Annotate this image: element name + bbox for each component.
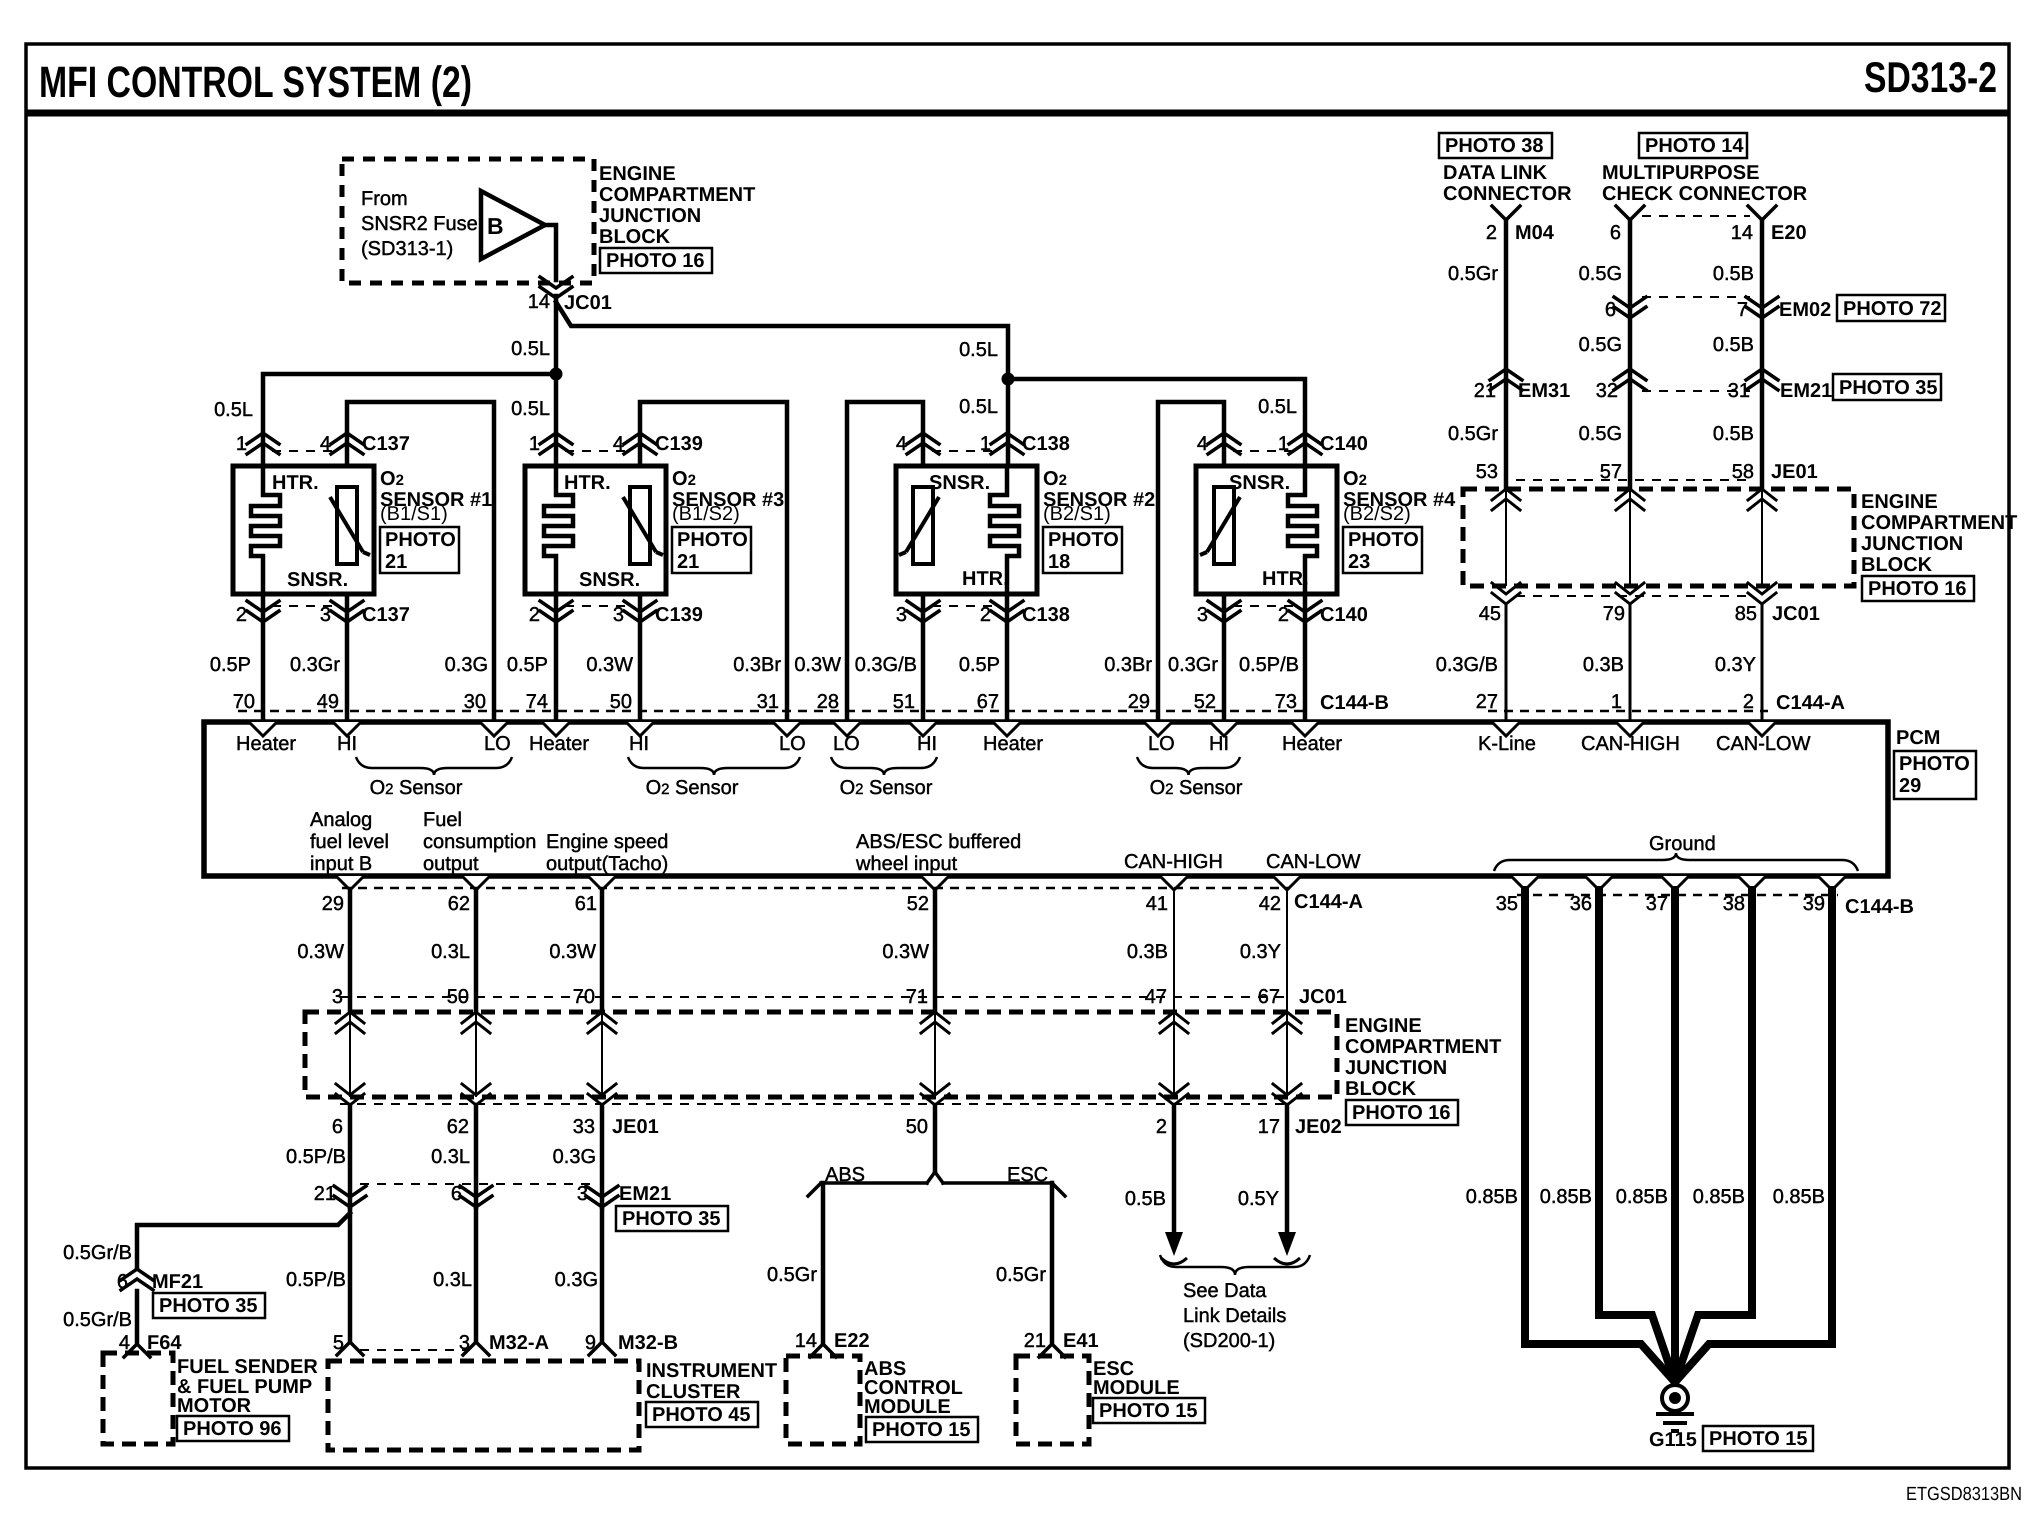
PCM top pin V connector at x=1762 bbox=[1748, 722, 1776, 736]
svg-text:0.3B: 0.3B bbox=[1127, 941, 1168, 963]
svg-text:JUNCTION: JUNCTION bbox=[1345, 1057, 1447, 1079]
connector C137 pin 1 chevron bbox=[247, 433, 279, 454]
PCM bottom pin V connector at x=1599 bbox=[1585, 876, 1613, 890]
O2 sensor 1 box bbox=[233, 466, 374, 594]
wire 0.5L bus down to sensor2 pin1 bbox=[1006, 379, 1011, 466]
svg-text:E20: E20 bbox=[1771, 222, 1807, 244]
svg-text:C138: C138 bbox=[1022, 433, 1070, 455]
svg-text:(B2/S2): (B2/S2) bbox=[1343, 503, 1411, 525]
svg-text:4: 4 bbox=[1197, 433, 1208, 455]
svg-text:0.5Gr: 0.5Gr bbox=[1448, 263, 1498, 285]
brace grouping HI/LO pins bbox=[356, 757, 512, 775]
svg-text:23: 23 bbox=[1348, 551, 1370, 573]
arrow tick bbox=[1161, 1258, 1187, 1264]
svg-text:2: 2 bbox=[1486, 222, 1497, 244]
svg-text:3: 3 bbox=[459, 1332, 470, 1354]
svg-text:21: 21 bbox=[385, 551, 407, 573]
svg-text:CLUSTER: CLUSTER bbox=[646, 1381, 741, 1403]
svg-text:0.5P: 0.5P bbox=[210, 654, 251, 676]
wire sensor 4 SNSR bottom to PCM bbox=[1222, 594, 1227, 722]
svg-text:PHOTO 16: PHOTO 16 bbox=[1352, 1102, 1451, 1124]
sensing element SNSR of sensor 1 bbox=[337, 487, 357, 564]
svg-text:0.85B: 0.85B bbox=[1466, 1186, 1518, 1208]
svg-text:C137: C137 bbox=[362, 604, 410, 626]
svg-text:45: 45 bbox=[1479, 603, 1501, 625]
connector M32-B pin 9 fork bbox=[589, 1342, 615, 1355]
O2 sensor 3 box bbox=[525, 466, 666, 594]
svg-text:0.5P/B: 0.5P/B bbox=[286, 1269, 346, 1291]
svg-text:(SD200-1): (SD200-1) bbox=[1183, 1330, 1275, 1352]
FUEL SENDER dashed box bbox=[103, 1353, 173, 1444]
svg-text:3: 3 bbox=[613, 604, 624, 626]
svg-text:27: 27 bbox=[1476, 691, 1498, 713]
svg-text:6: 6 bbox=[451, 1183, 462, 1205]
svg-text:17: 17 bbox=[1258, 1116, 1280, 1138]
svg-text:G115: G115 bbox=[1649, 1429, 1697, 1451]
wire ESC branch down to E41 bbox=[1050, 1183, 1055, 1344]
svg-text:PCM: PCM bbox=[1896, 727, 1940, 749]
svg-text:2: 2 bbox=[980, 604, 991, 626]
junction block top chevron pin 71 bbox=[921, 1012, 949, 1033]
wire through junction block (pin 47) bbox=[1173, 1012, 1175, 1097]
svg-text:O2: O2 bbox=[1043, 468, 1067, 490]
svg-text:0.3W: 0.3W bbox=[586, 654, 633, 676]
svg-text:SNSR.: SNSR. bbox=[929, 472, 990, 494]
connector C140 pin 3 chevron bbox=[1208, 601, 1240, 622]
svg-text:COMPARTMENT: COMPARTMENT bbox=[599, 184, 755, 206]
connector C137 pin 3 chevron bbox=[331, 601, 363, 622]
note See Data Link Details (SD200-1) bbox=[1183, 1280, 1286, 1352]
svg-text:K-Line: K-Line bbox=[1478, 733, 1536, 755]
svg-text:14: 14 bbox=[795, 1330, 817, 1352]
svg-text:PHOTO: PHOTO bbox=[1048, 529, 1119, 551]
brace grouping ground pins bbox=[1494, 853, 1858, 871]
ESC MODULE dashed box bbox=[1016, 1356, 1089, 1444]
svg-text:0.5B: 0.5B bbox=[1713, 263, 1754, 285]
PCM bottom pin V connector at x=602 bbox=[588, 876, 616, 890]
svg-text:FUEL SENDER: FUEL SENDER bbox=[177, 1356, 318, 1378]
ABS CONTROL MODULE label bbox=[864, 1358, 963, 1418]
wire sensor 3 heater bottom to PCM bbox=[554, 594, 559, 722]
arrowhead CAN-LOW bbox=[1278, 1232, 1296, 1256]
svg-text:0.3B: 0.3B bbox=[1583, 654, 1624, 676]
connector C139 top dashed line bbox=[565, 450, 631, 452]
svg-text:31: 31 bbox=[757, 691, 779, 713]
ABS/ESC split bar bbox=[808, 1172, 1065, 1196]
svg-text:O2: O2 bbox=[1343, 468, 1367, 490]
svg-text:0.5G: 0.5G bbox=[1579, 423, 1622, 445]
svg-text:53: 53 bbox=[1476, 461, 1498, 483]
svg-text:PHOTO 16: PHOTO 16 bbox=[1868, 578, 1967, 600]
MULTIPURPOSE CHECK CONNECTOR label bbox=[1602, 162, 1808, 205]
svg-text:4: 4 bbox=[320, 433, 331, 455]
connector C139 pin 4 chevron bbox=[624, 433, 656, 454]
svg-text:CHECK CONNECTOR: CHECK CONNECTOR bbox=[1602, 183, 1808, 205]
svg-text:MFI CONTROL SYSTEM (2): MFI CONTROL SYSTEM (2) bbox=[39, 58, 472, 107]
wire PCM pin 41 down to junction block bbox=[1173, 890, 1175, 1012]
svg-text:0.5Gr/B: 0.5Gr/B bbox=[63, 1309, 132, 1331]
svg-text:HTR.: HTR. bbox=[564, 472, 611, 494]
component label O2 SENSOR #3 bbox=[672, 468, 784, 525]
svg-text:0.3Y: 0.3Y bbox=[1240, 941, 1281, 963]
wire PCM pin 42 down to junction block bbox=[1286, 890, 1288, 1012]
svg-text:O2: O2 bbox=[380, 468, 404, 490]
svg-text:O2 Sensor: O2 Sensor bbox=[1150, 777, 1243, 799]
svg-text:38: 38 bbox=[1723, 893, 1745, 915]
PHOTO 15 label (ESC module) bbox=[1093, 1398, 1205, 1423]
svg-text:14: 14 bbox=[528, 291, 550, 313]
wire O2 sensor 2 signal LO loop bbox=[847, 402, 923, 722]
svg-text:JUNCTION: JUNCTION bbox=[1861, 533, 1963, 555]
svg-text:0.3G/B: 0.3G/B bbox=[855, 654, 917, 676]
junction block top chevron pin 50 bbox=[462, 1012, 490, 1033]
PCM top pin V connector at x=556 bbox=[542, 722, 570, 736]
svg-text:PHOTO 14: PHOTO 14 bbox=[1645, 135, 1744, 157]
svg-text:3: 3 bbox=[577, 1183, 588, 1205]
check connector terminal fork pin 6 bbox=[1616, 206, 1644, 220]
svg-text:PHOTO 15: PHOTO 15 bbox=[1099, 1400, 1198, 1422]
svg-text:0.85B: 0.85B bbox=[1693, 1186, 1745, 1208]
svg-text:JC01: JC01 bbox=[564, 292, 612, 314]
check connector dashed line bbox=[1642, 215, 1750, 217]
PCM top pin V connector at x=1158 bbox=[1144, 722, 1172, 736]
svg-text:HTR.: HTR. bbox=[962, 568, 1009, 590]
PCM bottom pin V connector at x=1752 bbox=[1738, 876, 1766, 890]
svg-text:COMPARTMENT: COMPARTMENT bbox=[1345, 1036, 1501, 1058]
svg-text:ETGSD8313BN: ETGSD8313BN bbox=[1906, 1484, 2022, 1505]
wire JC01 to PCM x=1630 bbox=[1629, 604, 1632, 722]
svg-text:M04: M04 bbox=[1515, 222, 1555, 244]
svg-text:MODULE: MODULE bbox=[864, 1396, 951, 1418]
svg-text:ABS/ESC buffered: ABS/ESC buffered bbox=[856, 831, 1021, 853]
connector E41 pin 21 fork bbox=[1039, 1344, 1065, 1357]
PHOTO 35 label (MF21) bbox=[153, 1293, 265, 1318]
PHOTO 14 label (check connector) bbox=[1639, 133, 1747, 158]
svg-text:BLOCK: BLOCK bbox=[1861, 554, 1933, 576]
svg-text:wheel input: wheel input bbox=[855, 853, 958, 875]
svg-text:0.5Gr: 0.5Gr bbox=[1448, 423, 1498, 445]
svg-text:HI: HI bbox=[917, 733, 937, 755]
svg-text:INSTRUMENT: INSTRUMENT bbox=[646, 1360, 777, 1382]
wire branch to fuel sender (MF21) bbox=[137, 1213, 350, 1269]
svg-text:50: 50 bbox=[906, 1116, 928, 1138]
ground wire pin 37 bbox=[1671, 890, 1679, 1378]
ground wire pin 39 bbox=[1677, 890, 1832, 1380]
svg-text:CAN-LOW: CAN-LOW bbox=[1716, 733, 1811, 755]
wire sensor 1 heater bottom to PCM bbox=[261, 594, 266, 722]
PHOTO 16 label (top junction block) bbox=[600, 248, 712, 273]
PHOTO 45 label (instrument cluster) bbox=[646, 1402, 758, 1427]
PCM bottom pin V connector at x=1525 bbox=[1511, 876, 1539, 890]
svg-text:C144-A: C144-A bbox=[1776, 692, 1845, 714]
JC01 connector dashed line (right) bbox=[1516, 595, 1752, 597]
svg-text:1: 1 bbox=[529, 433, 540, 455]
connector C144-B dashed line (ground row) bbox=[1517, 894, 1838, 897]
svg-text:PHOTO 35: PHOTO 35 bbox=[1839, 377, 1938, 399]
connector MF21 pin 6 chevron bbox=[121, 1269, 153, 1290]
connector C139 pin 2 chevron bbox=[540, 601, 572, 622]
connector C140 pin 4 chevron bbox=[1208, 433, 1240, 454]
wire junction block to EM21 connector x=476 bbox=[474, 1105, 479, 1207]
svg-text:HI: HI bbox=[1209, 733, 1229, 755]
svg-text:SNSR.: SNSR. bbox=[1229, 472, 1290, 494]
PHOTO 15 label (ABS module) bbox=[866, 1417, 978, 1442]
svg-text:6: 6 bbox=[1605, 299, 1616, 321]
svg-text:C144-B: C144-B bbox=[1320, 692, 1389, 714]
svg-text:Engine speed: Engine speed bbox=[546, 831, 668, 853]
svg-text:0.5P/B: 0.5P/B bbox=[286, 1146, 346, 1168]
svg-text:Heater: Heater bbox=[529, 733, 589, 755]
wire PCM pin 52 down to junction block bbox=[933, 890, 938, 1012]
svg-text:C137: C137 bbox=[362, 433, 410, 455]
ground wire pin 35 bbox=[1525, 890, 1673, 1380]
svg-text:0.5P: 0.5P bbox=[959, 654, 1000, 676]
wire sensor 1 SNSR bottom to PCM bbox=[345, 594, 350, 722]
svg-text:5: 5 bbox=[333, 1332, 344, 1354]
PCM top pin V connector at x=1224 bbox=[1210, 722, 1238, 736]
svg-text:C144-A: C144-A bbox=[1294, 891, 1363, 913]
svg-text:0.85B: 0.85B bbox=[1773, 1186, 1825, 1208]
svg-text:74: 74 bbox=[526, 691, 548, 713]
ABS CONTROL MODULE dashed box bbox=[786, 1356, 860, 1444]
junction block chevrons x=1762 bbox=[1748, 489, 1776, 510]
svg-text:0.3G: 0.3G bbox=[555, 1269, 598, 1291]
heater element HTR of sensor 2 bbox=[990, 464, 1019, 596]
junction node right (dot) bbox=[1002, 373, 1015, 386]
wire PCM pin 62 down to junction block bbox=[474, 890, 479, 1012]
svg-text:PHOTO 72: PHOTO 72 bbox=[1843, 298, 1942, 320]
svg-text:PHOTO: PHOTO bbox=[677, 529, 748, 551]
svg-text:PHOTO 35: PHOTO 35 bbox=[622, 1208, 721, 1230]
svg-text:Heater: Heater bbox=[236, 733, 296, 755]
svg-text:LO: LO bbox=[484, 733, 511, 755]
buffer/triangle B symbol bbox=[481, 191, 545, 259]
svg-text:61: 61 bbox=[575, 893, 597, 915]
junction block top chevron pin 70 bbox=[588, 1012, 616, 1033]
wire JC01 down to left 0.5L bus bbox=[554, 296, 559, 374]
svg-text:ENGINE: ENGINE bbox=[1345, 1015, 1422, 1037]
connector EM21 pin 3 chevron bbox=[586, 1186, 618, 1207]
connector C138 pin 2 chevron bbox=[991, 601, 1023, 622]
wire O2 sensor 1 signal LO loop bbox=[347, 402, 494, 722]
PCM top pin V connector at x=1305 bbox=[1291, 722, 1319, 736]
svg-text:3: 3 bbox=[320, 604, 331, 626]
wire fuel level signal down to M32-A pin 5 bbox=[348, 1207, 353, 1342]
PCM bottom pin V connector at x=1287 bbox=[1273, 876, 1301, 890]
ESC MODULE label bbox=[1093, 1358, 1180, 1399]
brace see data link bbox=[1160, 1255, 1310, 1275]
junction block bottom chevron pin 50 bbox=[921, 1084, 949, 1105]
svg-text:SNSR.: SNSR. bbox=[287, 569, 348, 591]
connector C138 bottom dashed line bbox=[932, 605, 998, 607]
svg-text:0.3G/B: 0.3G/B bbox=[1436, 654, 1498, 676]
svg-text:B: B bbox=[487, 213, 504, 239]
INSTRUMENT CLUSTER dashed box bbox=[328, 1361, 639, 1450]
connector C138 pin 3 chevron bbox=[907, 601, 939, 622]
ENGINE COMPARTMENT JUNCTION BLOCK label (right) bbox=[1861, 491, 2017, 576]
svg-text:output(Tacho): output(Tacho) bbox=[546, 853, 668, 875]
svg-text:CAN-LOW: CAN-LOW bbox=[1266, 851, 1361, 873]
svg-text:37: 37 bbox=[1646, 893, 1668, 915]
connector F64 pin 4 fork bbox=[124, 1344, 150, 1357]
svg-text:Ground: Ground bbox=[1649, 833, 1716, 855]
wire engine speed down to M32-B pin 9 bbox=[600, 1207, 605, 1342]
connector C139 bottom dashed line bbox=[565, 605, 631, 607]
PCM top pin V connector at x=347 bbox=[333, 722, 361, 736]
PHOTO 38 label (data link connector) bbox=[1439, 133, 1552, 158]
connector EM02 dashed line bbox=[1642, 296, 1750, 298]
wire M04 K-line down bbox=[1504, 220, 1509, 489]
connector EM31 pin 21 chevron bbox=[1490, 369, 1522, 390]
svg-text:0.5L: 0.5L bbox=[959, 339, 998, 361]
svg-text:BLOCK: BLOCK bbox=[1345, 1078, 1417, 1100]
connector C144-A dashed line (top) bbox=[1488, 710, 1768, 713]
svg-text:M32-A: M32-A bbox=[489, 1332, 549, 1354]
svg-text:fuel level: fuel level bbox=[310, 831, 389, 853]
INSTRUMENT CLUSTER label bbox=[646, 1360, 777, 1403]
svg-text:2: 2 bbox=[236, 604, 247, 626]
connector C138 pin 4 chevron bbox=[907, 433, 939, 454]
svg-text:CONNECTOR: CONNECTOR bbox=[1443, 183, 1572, 205]
connector C144-B dashed line (top) bbox=[238, 710, 1310, 713]
connector C140 pin 2 chevron bbox=[1289, 601, 1321, 622]
connector C140 top dashed line bbox=[1233, 450, 1296, 452]
svg-text:E41: E41 bbox=[1063, 1330, 1099, 1352]
wire PCM pin 61 down to junction block bbox=[600, 890, 605, 1012]
component label O2 SENSOR #2 bbox=[1043, 468, 1155, 525]
connector EM21 dashed line bbox=[1642, 390, 1750, 392]
svg-text:(B2/S1): (B2/S1) bbox=[1043, 503, 1111, 525]
sensing element SNSR of sensor 2 bbox=[913, 487, 933, 564]
wire junction block to EM21 connector x=602 bbox=[600, 1105, 605, 1207]
svg-text:LO: LO bbox=[833, 733, 860, 755]
svg-text:49: 49 bbox=[317, 691, 339, 713]
svg-text:50: 50 bbox=[610, 691, 632, 713]
svg-text:O2: O2 bbox=[672, 468, 696, 490]
svg-text:2: 2 bbox=[529, 604, 540, 626]
PCM bottom pin V connector at x=1174 bbox=[1160, 876, 1188, 890]
svg-text:0.5L: 0.5L bbox=[511, 398, 550, 420]
svg-text:LO: LO bbox=[1148, 733, 1175, 755]
sensing element SNSR of sensor 4 bbox=[1214, 487, 1234, 564]
component label O2 SENSOR #4 bbox=[1343, 468, 1456, 525]
heater element HTR of sensor 3 bbox=[544, 464, 573, 596]
FUEL SENDER & FUEL PUMP MOTOR label bbox=[177, 1356, 318, 1417]
svg-text:Fuel: Fuel bbox=[423, 809, 462, 831]
svg-text:EM31: EM31 bbox=[1518, 380, 1570, 402]
svg-text:CAN-HIGH: CAN-HIGH bbox=[1581, 733, 1680, 755]
svg-text:PHOTO 38: PHOTO 38 bbox=[1445, 135, 1544, 157]
svg-text:PHOTO: PHOTO bbox=[1899, 753, 1970, 775]
connector EM21 pin 32 chevron bbox=[1614, 369, 1646, 390]
svg-text:1: 1 bbox=[1278, 433, 1289, 455]
heater element HTR of sensor 1 bbox=[251, 464, 280, 596]
svg-text:2: 2 bbox=[1743, 691, 1754, 713]
svg-text:JE02: JE02 bbox=[1295, 1116, 1342, 1138]
connector C137 pin 2 chevron bbox=[247, 601, 279, 622]
svg-text:0.5B: 0.5B bbox=[1125, 1188, 1166, 1210]
svg-text:EM21: EM21 bbox=[619, 1183, 671, 1205]
svg-text:0.3W: 0.3W bbox=[549, 941, 596, 963]
connector C138 top dashed line bbox=[932, 450, 998, 452]
PCM box bbox=[204, 722, 1888, 876]
svg-text:C139: C139 bbox=[655, 433, 703, 455]
svg-text:85: 85 bbox=[1735, 603, 1757, 625]
arrow tick bbox=[1274, 1258, 1300, 1264]
junction block bottom chevron pin 33 bbox=[588, 1084, 616, 1105]
junction block chevrons x=1506 bbox=[1492, 489, 1520, 510]
svg-text:0.85B: 0.85B bbox=[1540, 1186, 1592, 1208]
svg-text:29: 29 bbox=[1899, 775, 1921, 797]
svg-text:See Data: See Data bbox=[1183, 1280, 1267, 1302]
connector M32-A pin 5 fork bbox=[337, 1342, 363, 1355]
svg-text:30: 30 bbox=[464, 691, 486, 713]
M32-A connector dashed line bbox=[360, 1349, 468, 1351]
connector C144-A dashed line (bottom) bbox=[342, 887, 1290, 890]
svg-text:O2 Sensor: O2 Sensor bbox=[370, 777, 463, 799]
svg-text:PHOTO: PHOTO bbox=[1348, 529, 1419, 551]
svg-text:output: output bbox=[423, 853, 479, 875]
PCM bottom pin V connector at x=476 bbox=[462, 876, 490, 890]
PHOTO 96 label (fuel sender) bbox=[177, 1416, 289, 1441]
svg-text:9: 9 bbox=[585, 1332, 596, 1354]
svg-text:O2 Sensor: O2 Sensor bbox=[646, 777, 739, 799]
JE01 connector dashed line (right) bbox=[1516, 479, 1752, 481]
svg-text:PHOTO 15: PHOTO 15 bbox=[872, 1419, 971, 1441]
svg-text:62: 62 bbox=[448, 893, 470, 915]
svg-text:DATA LINK: DATA LINK bbox=[1443, 162, 1548, 184]
wire ABS branch down to E22 bbox=[821, 1183, 826, 1344]
wire junction block to EM21 connector x=350 bbox=[348, 1105, 353, 1207]
svg-text:ESC: ESC bbox=[1007, 1164, 1048, 1186]
svg-text:SNSR.: SNSR. bbox=[579, 569, 640, 591]
PCM label Engine speed output(Tacho) bbox=[546, 831, 668, 875]
svg-text:0.3L: 0.3L bbox=[431, 941, 470, 963]
wire through junction block (pin 50) bbox=[475, 1012, 477, 1097]
wire O2 sensor 3 signal LO loop bbox=[640, 402, 787, 722]
svg-text:0.5Gr: 0.5Gr bbox=[767, 1264, 817, 1286]
PCM label Fuel consumption output bbox=[423, 809, 536, 875]
O2 sensor 2 box bbox=[896, 466, 1037, 594]
svg-text:CAN-HIGH: CAN-HIGH bbox=[1124, 851, 1223, 873]
svg-text:0.3Br: 0.3Br bbox=[733, 654, 781, 676]
svg-text:0.5Gr/B: 0.5Gr/B bbox=[63, 1242, 132, 1264]
PHOTO 35 label (EM21 right) bbox=[1833, 374, 1941, 400]
wire through junction block (pin 67) bbox=[1286, 1012, 1288, 1097]
svg-text:2: 2 bbox=[1156, 1116, 1167, 1138]
ground wire pin 36 bbox=[1599, 890, 1674, 1379]
svg-text:PHOTO 16: PHOTO 16 bbox=[606, 250, 705, 272]
svg-text:E22: E22 bbox=[834, 1330, 870, 1352]
junction block top chevron pin 47 bbox=[1160, 1012, 1188, 1033]
svg-text:52: 52 bbox=[1194, 691, 1216, 713]
svg-text:0.3W: 0.3W bbox=[794, 654, 841, 676]
wire check pin6 down bbox=[1628, 220, 1633, 489]
PCM top pin V connector at x=494 bbox=[480, 722, 508, 736]
junction block bottom chevron pin 62 bbox=[462, 1084, 490, 1105]
svg-text:MODULE: MODULE bbox=[1093, 1377, 1180, 1399]
connector EM02 pin 6 chevron bbox=[1614, 297, 1646, 318]
junction block top chevron pin 67 bbox=[1273, 1012, 1301, 1033]
PHOTO 21 label bbox=[380, 527, 459, 573]
wire through junction block (pin 3) bbox=[349, 1012, 351, 1097]
svg-text:JUNCTION: JUNCTION bbox=[599, 205, 701, 227]
connector E22 pin 14 fork bbox=[810, 1344, 836, 1357]
svg-text:0.3Gr: 0.3Gr bbox=[290, 654, 340, 676]
svg-text:7: 7 bbox=[1737, 299, 1748, 321]
wire 0.5L bus right arm to sensor4 pin1 bbox=[1008, 379, 1305, 466]
component label O2 SENSOR #1 bbox=[380, 468, 492, 525]
